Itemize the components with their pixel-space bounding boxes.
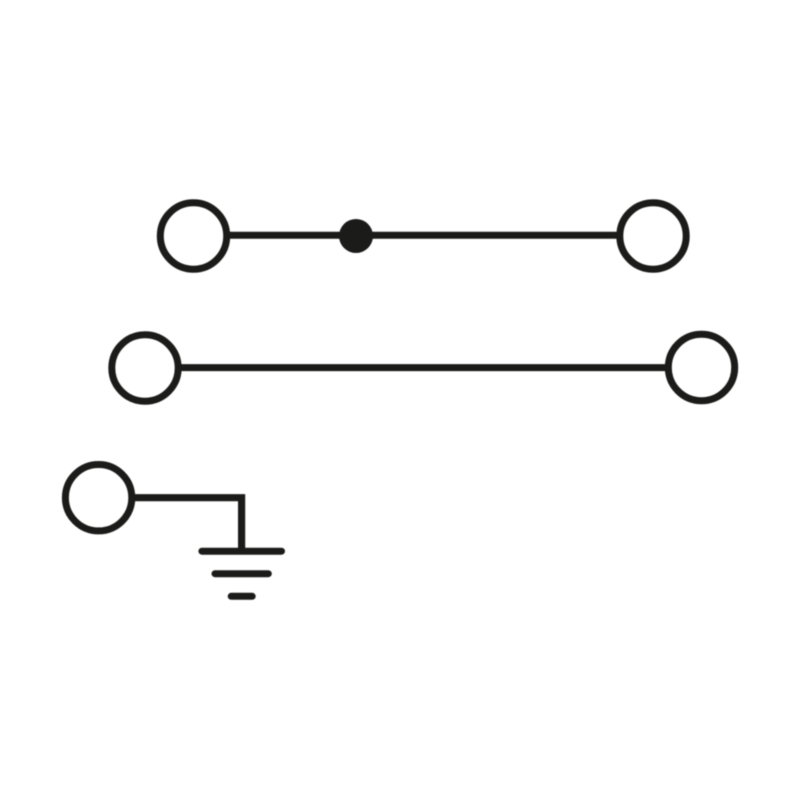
terminal circle P5 (bottom left) bbox=[65, 465, 131, 531]
wire (middle row) bbox=[182, 364, 666, 371]
terminal circle P2 (top right) bbox=[620, 203, 686, 269]
wire (bottom, horizontal then down to ground) bbox=[135, 498, 242, 551]
terminal circle P3 (middle left) bbox=[112, 335, 178, 401]
ground bar 1 (top, longest) bbox=[202, 548, 282, 555]
terminal circle P4 (middle right) bbox=[668, 334, 734, 400]
junction dot (top row) bbox=[339, 219, 373, 253]
ground bar 3 (bottom, shortest) bbox=[231, 593, 252, 600]
wire (top row, junction to right terminal) bbox=[356, 232, 617, 239]
ground bar 2 (middle) bbox=[215, 570, 268, 577]
terminal circle P1 (top left) bbox=[160, 203, 226, 269]
wire (top row, left segment to junction) bbox=[230, 232, 356, 239]
